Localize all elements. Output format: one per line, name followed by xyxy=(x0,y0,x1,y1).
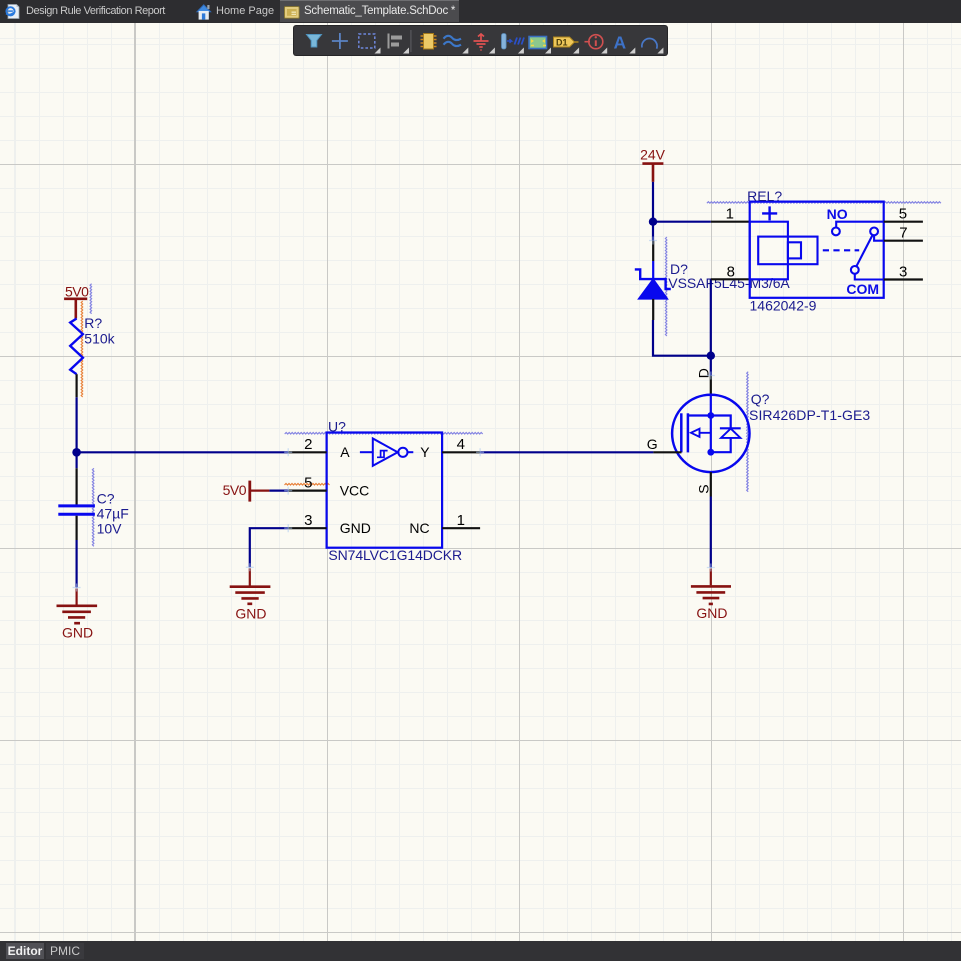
relay REL1 pin 1 xyxy=(711,221,750,223)
no-erc tool icon xyxy=(585,35,603,49)
bottom status bar xyxy=(0,941,961,961)
svg-text:COM: COM xyxy=(846,281,879,297)
home tab icon xyxy=(197,5,211,20)
relay REL1 plus polarity mark xyxy=(762,206,777,220)
svg-text:C?: C? xyxy=(97,490,115,506)
pin connection markers xyxy=(73,237,715,592)
wire 24V to node B xyxy=(652,182,654,222)
relay REL1 dashed actuator line xyxy=(823,249,859,251)
wire 5V0 to U1 pin 5 xyxy=(269,490,288,492)
squiggle right of mosfet Q1 xyxy=(747,372,749,492)
diode D1 schottky symbol xyxy=(635,261,671,299)
svg-text:A: A xyxy=(340,444,350,460)
svg-text:2: 2 xyxy=(304,436,312,453)
power port 5V0 (top left) xyxy=(64,283,89,318)
svg-text:510k: 510k xyxy=(84,331,115,347)
op-amp U1 body (inverter SN74LVC1G14) xyxy=(327,433,443,548)
U1 pin 3 (GND) xyxy=(288,527,326,529)
svg-text:7: 7 xyxy=(899,225,907,242)
U1 pin 1 (NC) xyxy=(442,527,480,529)
relay REL1 pin 5 xyxy=(884,221,923,223)
net label tool icon xyxy=(554,37,579,47)
power port 5V0 at U1 VCC xyxy=(223,481,270,502)
svg-text:SN74LVC1G14DCKR: SN74LVC1G14DCKR xyxy=(328,547,462,563)
relay REL1 coil rectangles xyxy=(750,222,818,280)
svg-text:1: 1 xyxy=(457,512,465,529)
mosfet Q1 body circle xyxy=(672,395,749,472)
squiggle right of diode D1 xyxy=(665,237,667,336)
wire node A to U1 pin 2 xyxy=(77,451,289,453)
wire node A down to capacitor C1 xyxy=(75,452,77,468)
U1 pin 5 (VCC) xyxy=(288,490,326,492)
mosfet Q1 gate pin xyxy=(653,451,681,453)
mosfet Q1 drain pin xyxy=(710,376,712,396)
compile-mask squiggle along REL1 box top xyxy=(707,202,941,204)
top tab bar xyxy=(0,0,961,23)
wire resistor to node A xyxy=(75,397,77,452)
wire diode D1 to node C xyxy=(653,320,711,356)
filter tool icon xyxy=(307,35,322,48)
sheet symbol tool icon xyxy=(529,37,547,49)
relay REL1 body xyxy=(750,202,884,298)
svg-text:3: 3 xyxy=(899,263,907,280)
ground GND2 symbol xyxy=(230,568,271,621)
relay REL1 NO contact xyxy=(832,222,884,236)
node B junction dot xyxy=(649,218,657,226)
relay REL1 pin 8 xyxy=(711,278,750,280)
svg-text:GND: GND xyxy=(340,520,371,536)
svg-text:1: 1 xyxy=(726,206,734,223)
node C junction dot xyxy=(707,352,715,360)
toolbar dropdown triangles xyxy=(375,48,664,54)
resistor R1 lower pin xyxy=(75,374,77,397)
svg-text:24V: 24V xyxy=(640,147,666,163)
wire node C up to relay pin 8 xyxy=(710,279,712,355)
ground GND1 symbol xyxy=(57,589,98,641)
svg-text:GND: GND xyxy=(62,624,93,640)
svg-text:47µF: 47µF xyxy=(97,505,129,521)
orange error squiggle along resistor R1 xyxy=(81,301,83,397)
harness tool icon xyxy=(502,34,525,50)
power port 24V xyxy=(640,147,666,182)
relay REL1 pin 3 xyxy=(884,278,923,280)
U1 pin 4 (Y output) xyxy=(442,451,480,453)
svg-text:NC: NC xyxy=(409,520,429,536)
svg-text:5V0: 5V0 xyxy=(65,283,89,299)
mosfet Q1 internal symbol xyxy=(681,395,740,456)
squiggle right of capacitor C1 xyxy=(92,468,94,546)
wire node B to relay pin 1 xyxy=(653,221,711,223)
move tool icon xyxy=(332,33,348,49)
svg-text:REL?: REL? xyxy=(747,188,782,204)
capacitor C1 top pin xyxy=(75,468,77,504)
diode D1 cathode pin xyxy=(652,241,654,262)
wire node C to mosfet drain xyxy=(710,356,712,376)
arc tool icon xyxy=(642,38,657,48)
select rect tool icon xyxy=(359,34,375,48)
svg-text:5: 5 xyxy=(899,206,907,223)
squiggle right of 5V0 port PWR1 xyxy=(90,284,92,314)
power port tool icon xyxy=(474,34,489,50)
ground GND3 symbol xyxy=(691,569,731,621)
node A junction dot xyxy=(72,448,81,457)
svg-text:GND: GND xyxy=(696,605,727,621)
wire node B down to diode D1 xyxy=(652,222,654,241)
svg-text:SIR426DP-T1-GE3: SIR426DP-T1-GE3 xyxy=(749,407,870,423)
part tool icon xyxy=(421,34,437,50)
wire U1 pin 3 to GND2 xyxy=(250,528,288,567)
resistor R1 zigzag xyxy=(70,319,83,375)
svg-text:Y: Y xyxy=(420,444,430,460)
svg-text:NO: NO xyxy=(827,206,848,222)
doc report tab icon xyxy=(6,5,19,19)
floating toolbar xyxy=(294,26,667,55)
svg-text:D1: D1 xyxy=(556,37,568,47)
svg-text:VCC: VCC xyxy=(340,482,370,498)
wire capacitor C1 to GND1 xyxy=(75,540,77,588)
relay REL1 pin 7 xyxy=(884,240,923,242)
schdoc tab icon xyxy=(285,7,300,19)
svg-text:10V: 10V xyxy=(97,520,123,536)
svg-text:Q?: Q? xyxy=(751,391,770,407)
svg-text:A: A xyxy=(614,32,627,52)
U1 inverter triangle symbol xyxy=(360,439,413,466)
capacitor C1 bottom pin xyxy=(75,516,77,540)
wire mosfet source to GND3 xyxy=(710,497,712,568)
svg-text:1462042-9: 1462042-9 xyxy=(750,298,817,314)
svg-text:3: 3 xyxy=(304,512,312,529)
U1 pin 2 (A input) xyxy=(288,451,326,453)
svg-text:8: 8 xyxy=(727,263,735,280)
svg-text:D: D xyxy=(696,368,712,378)
diode D1 anode pin xyxy=(652,299,654,320)
svg-text:S: S xyxy=(696,484,712,493)
svg-text:GND: GND xyxy=(235,606,266,622)
svg-text:4: 4 xyxy=(457,436,465,453)
wire tool icon xyxy=(444,36,462,46)
orange error squiggle at pin 5 of U1 xyxy=(285,484,330,486)
svg-text:U?: U? xyxy=(328,418,346,434)
svg-text:G: G xyxy=(647,436,658,452)
capacitor C1 plates xyxy=(58,506,95,514)
svg-text:5: 5 xyxy=(304,475,312,492)
svg-text:5V0: 5V0 xyxy=(223,482,247,498)
mosfet Q1 source pin xyxy=(710,472,712,496)
separator xyxy=(410,30,412,52)
wire U1 pin 4 to mosfet gate xyxy=(480,451,653,453)
relay REL1 switch arm xyxy=(851,228,884,280)
svg-text:R?: R? xyxy=(84,315,102,331)
compile-mask squiggle left+right of U1 box top xyxy=(285,433,483,435)
align tool icon xyxy=(388,34,403,49)
